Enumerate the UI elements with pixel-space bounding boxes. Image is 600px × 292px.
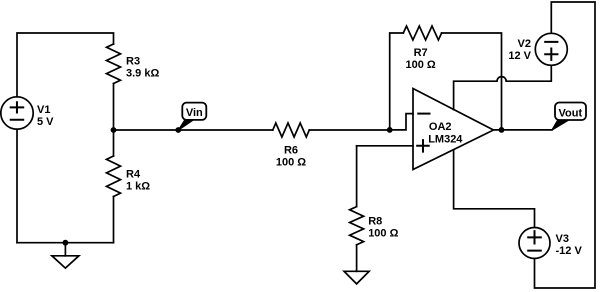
svg-text:R4: R4 <box>126 168 141 180</box>
wire R8 top leg <box>356 146 358 207</box>
wire non-inverting input <box>357 145 413 147</box>
label R7 100 Ohm <box>405 47 435 71</box>
resistor R6 <box>273 123 310 137</box>
svg-text:3.9 kΩ: 3.9 kΩ <box>126 67 159 79</box>
resistor R3 <box>107 44 121 84</box>
svg-text:V2: V2 <box>518 38 531 50</box>
resistor R7 <box>403 26 441 40</box>
ground left <box>52 243 79 268</box>
svg-text:100 Ω: 100 Ω <box>368 228 398 240</box>
wire V1 bottom down <box>16 129 18 243</box>
wire R6 to inverting node <box>309 129 389 131</box>
node Vin tap <box>175 127 181 133</box>
svg-text:Vout: Vout <box>558 107 582 119</box>
op-amp minus input symbol <box>418 113 429 115</box>
svg-text:R6: R6 <box>284 144 298 156</box>
wire R4 bottom <box>113 197 115 243</box>
wire node to R4 top <box>113 130 115 156</box>
wire op-amp V+ pin to V2 with hop <box>454 65 552 109</box>
wire node to R6 <box>114 129 273 131</box>
label R8 100 Ohm <box>368 215 398 239</box>
wire op-amp output <box>494 129 553 131</box>
svg-text:V1: V1 <box>37 104 50 116</box>
resistor R4 <box>107 156 121 197</box>
label V1 5 V <box>37 104 54 128</box>
node inverting input <box>387 127 393 133</box>
op-amp OA2 triangle <box>413 89 494 170</box>
svg-text:V3: V3 <box>556 233 569 245</box>
svg-text:12 V: 12 V <box>508 50 531 62</box>
voltage source V1 <box>1 97 33 129</box>
voltage source V3 <box>519 228 550 259</box>
net label Vin <box>178 103 206 131</box>
wire op-amp V- pin to V3 <box>454 150 535 228</box>
svg-text:100 Ω: 100 Ω <box>405 59 435 71</box>
resistor R8 <box>350 207 364 245</box>
svg-text:R8: R8 <box>368 215 382 227</box>
wire feedback right leg down to output <box>442 33 502 130</box>
svg-text:1 kΩ: 1 kΩ <box>126 180 150 192</box>
svg-text:R7: R7 <box>414 47 428 59</box>
wire bottom-left <box>17 242 114 244</box>
voltage source V2 <box>535 33 567 65</box>
svg-text:R3: R3 <box>126 55 140 67</box>
label R6 100 Ohm <box>276 144 306 168</box>
label OA2 LM324 <box>428 121 463 145</box>
wire feedback left leg up <box>390 33 404 130</box>
label V3 -12 V <box>556 233 583 257</box>
label R3 3.9 kOhm <box>126 55 159 79</box>
svg-text:OA2: OA2 <box>429 121 452 133</box>
ground R8 <box>344 271 369 284</box>
svg-text:-12 V: -12 V <box>556 245 583 257</box>
wire V2 top to right rail <box>535 2 596 288</box>
wire R8 bottom leg <box>356 245 358 271</box>
wire inverting input step <box>390 114 413 130</box>
svg-text:Vin: Vin <box>186 107 203 119</box>
wire top-left loop V1 top to R3 top <box>17 33 114 97</box>
label R4 1 kOhm <box>126 168 150 192</box>
op-amp plus input symbol <box>417 140 429 152</box>
label V2 12 V <box>508 38 531 62</box>
svg-text:5 V: 5 V <box>37 116 54 128</box>
node output junction <box>499 127 505 133</box>
svg-text:LM324: LM324 <box>428 133 463 145</box>
svg-text:100 Ω: 100 Ω <box>276 156 306 168</box>
wire R3 bottom to node <box>113 84 115 131</box>
node junction left divider <box>111 127 117 133</box>
node ground junction <box>63 240 69 246</box>
net label Vout <box>552 103 587 131</box>
